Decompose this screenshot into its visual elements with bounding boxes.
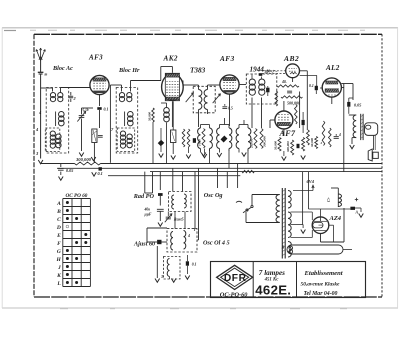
svg-text:Rad PO: Rad PO [133,193,155,200]
svg-text:AK2: AK2 [163,55,178,63]
svg-text:A: A [56,201,61,207]
svg-text:0.1: 0.1 [98,171,103,176]
svg-text:50,avenue Klaske: 50,avenue Klaske [301,282,341,288]
svg-text:Osc Ol 4 5: Osc Ol 4 5 [203,240,230,247]
svg-text:3: 3 [160,275,163,279]
svg-text:B: B [56,209,61,215]
svg-text:0.5: 0.5 [228,107,233,111]
svg-text:L: L [56,281,61,287]
svg-text:AF3: AF3 [88,54,103,62]
svg-text:4: 4 [338,133,341,137]
svg-text:300,000: 300,000 [75,157,92,162]
svg-text:7 lampes: 7 lampes [259,269,285,277]
svg-text:E: E [56,233,61,239]
svg-text:AL2: AL2 [325,64,340,72]
svg-text:40o: 40o [144,208,151,212]
svg-text:K: K [56,273,61,279]
svg-text:B: B [281,245,285,250]
svg-text:F: F [57,241,61,247]
svg-text:2: 2 [320,141,323,145]
svg-text:50,000: 50,000 [274,141,278,150]
svg-text:300,000: 300,000 [286,141,290,153]
svg-text:0.05: 0.05 [66,168,73,173]
svg-text:AF3: AF3 [219,55,235,63]
svg-text:500,000: 500,000 [287,101,300,106]
svg-text:DFR: DFR [224,273,247,284]
svg-text:2: 2 [73,96,76,101]
svg-text:OC-PO-60: OC-PO-60 [220,291,248,298]
svg-text:462E.: 462E. [255,282,291,297]
svg-text:C: C [57,217,61,223]
svg-text:AF7: AF7 [279,129,296,138]
svg-text:0.1: 0.1 [104,107,109,112]
svg-text:30: 30 [266,70,271,74]
svg-text:D: D [56,225,61,231]
svg-text:Osc Og: Osc Og [204,192,223,199]
svg-text:1944: 1944 [250,66,265,74]
svg-text:A: A [355,211,359,215]
svg-text:4: 4 [187,234,190,238]
svg-text:40.: 40. [281,80,287,84]
svg-text:30,000: 30,000 [310,138,314,148]
svg-text:T383: T383 [190,67,206,75]
svg-text:50,000: 50,000 [148,112,152,121]
svg-text:0.1: 0.1 [309,84,314,88]
svg-text:0.05: 0.05 [354,103,361,108]
svg-text:Etablissement: Etablissement [304,270,343,277]
svg-text:Bloc Hr: Bloc Hr [118,67,140,74]
svg-text:6V4: 6V4 [307,179,315,184]
svg-text:Bloc Ac: Bloc Ac [52,65,73,72]
svg-text:C+: C+ [326,196,331,202]
svg-text:0.1: 0.1 [192,263,197,267]
svg-text:AZ4: AZ4 [329,215,342,222]
svg-text:H: H [56,257,62,263]
svg-text:Tel Mar 04-00: Tel Mar 04-00 [304,291,338,297]
svg-text:AB2: AB2 [283,54,299,63]
svg-text:m: m [45,73,48,77]
svg-text:300,000: 300,000 [263,136,267,148]
svg-text:µµF: µµF [144,213,152,217]
svg-text:G: G [57,249,61,255]
svg-text:J: J [57,265,61,271]
